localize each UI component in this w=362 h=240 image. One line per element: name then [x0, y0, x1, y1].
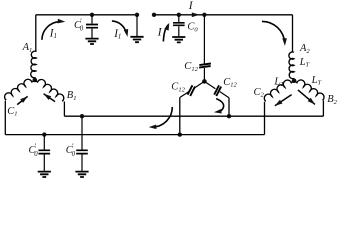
- capacitor C0: [173, 23, 185, 26]
- arrow current in B1 winding: [44, 94, 55, 102]
- node terminal start right net: [152, 13, 156, 17]
- wire C12 top branch upper stub: [203, 15, 205, 64]
- svg-text:0: 0: [34, 151, 38, 158]
- arrow I (curved up): [163, 25, 168, 42]
- inductor B2 phase winding LT: [294, 80, 324, 100]
- wire top-right horizontal: [154, 14, 293, 16]
- wire C1 lead vertical: [4, 101, 6, 135]
- arrow current in C2 winding: [275, 95, 292, 106]
- arrow I1 right (curved): [112, 21, 126, 33]
- node junction C12-left to lower bus: [178, 132, 182, 136]
- wire B1 lead vertical: [63, 102, 65, 117]
- node star point left machine: [33, 78, 38, 83]
- ground under C0' bottom 2: [75, 172, 88, 177]
- capacitor C12 (left): [188, 85, 195, 96]
- node star point right machine: [292, 78, 297, 83]
- wire A2 lead vertical: [292, 15, 294, 52]
- wire C12 left branch upper: [193, 81, 204, 88]
- wire C12 right branch vertical: [228, 98, 230, 116]
- svg-text:0: 0: [72, 151, 76, 158]
- wire A1 lead vertical: [35, 15, 37, 52]
- node junction C12 tap: [202, 13, 206, 17]
- node junction C12-right to upper bus: [227, 114, 231, 118]
- wire C12 right branch lower: [220, 92, 229, 98]
- wire C0'1 bottom stub: [43, 155, 45, 172]
- inductor A1 phase winding: [31, 51, 37, 78]
- node junction C0' bottom 2: [80, 114, 84, 118]
- node C12 star point: [202, 79, 207, 84]
- capacitor C12 (right): [214, 85, 221, 96]
- ground under C0: [172, 37, 185, 42]
- ground under C0' top: [85, 39, 98, 44]
- wire C0'2 bottom stub: [81, 155, 83, 172]
- inductor C1 phase winding: [5, 79, 35, 100]
- capacitor C0' (bottom 1): [39, 150, 51, 153]
- capacitor C12 (top): [199, 64, 211, 68]
- arrow current in C1 winding: [17, 96, 27, 104]
- inductor C2 phase winding LT: [264, 80, 294, 101]
- ground under C0' bottom 1: [38, 172, 51, 177]
- node junction C0' bottom 1: [42, 132, 46, 136]
- wire C12 top branch lower stub: [203, 68, 205, 80]
- wire C12 left branch vertical: [179, 98, 181, 135]
- arrow current in B2 winding: [298, 90, 315, 105]
- wire C2 lead vertical: [264, 102, 266, 135]
- wire ground drop vertical: [136, 15, 138, 36]
- wire B2 lead vertical: [322, 100, 324, 116]
- arrow current lower bus (curved): [152, 107, 172, 127]
- arrow current into A2 (curved): [262, 21, 285, 42]
- wire upper bus B1-B2: [64, 115, 323, 117]
- ground at top middle: [130, 37, 143, 42]
- wire C0 bottom stub: [178, 26, 180, 36]
- wire top-left horizontal: [36, 14, 137, 16]
- capacitor C0' (bottom 2): [76, 150, 88, 153]
- arrow current C12 right (hook): [216, 99, 223, 112]
- inductor A2 phase winding LT: [289, 52, 294, 79]
- svg-text:0: 0: [80, 26, 84, 33]
- wire C0' top stub: [91, 15, 93, 24]
- wire C0'2 vertical (crosses lower bus): [81, 116, 83, 149]
- wire C12 left branch lower: [180, 91, 189, 97]
- wire C12 right branch upper: [204, 81, 215, 88]
- wire C0 top stub: [178, 15, 180, 22]
- node junction ground drop: [135, 13, 139, 17]
- wire lower bus C1-C2: [5, 134, 264, 136]
- inductor B1 phase winding: [35, 80, 64, 102]
- wire C0'1 top stub: [43, 135, 45, 150]
- arrow I1 left (curved): [42, 22, 59, 40]
- wire C0' bottom stub: [91, 29, 93, 39]
- capacitor C0' (top left): [86, 25, 98, 28]
- arrow I on top wire: [192, 13, 200, 18]
- node junction top C0' tap: [90, 13, 94, 17]
- node junction C0 tap: [177, 13, 181, 17]
